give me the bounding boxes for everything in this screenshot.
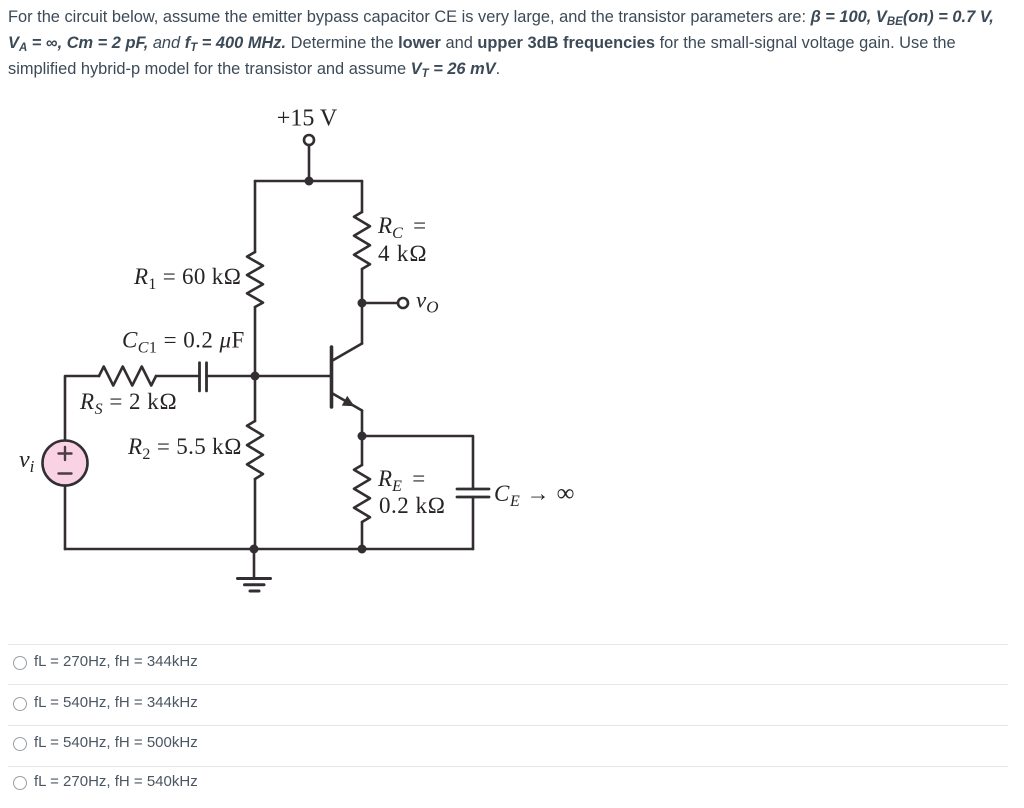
wire: top rail to RC top: [361, 181, 364, 212]
wire: top rail: [255, 180, 362, 183]
resistor RE = 0.2 kOhm: [354, 465, 370, 522]
answer option 1: [8, 644, 1008, 645]
wire: supply terminal to top rail: [308, 145, 311, 181]
wire: CE bottom to bottom rail: [472, 497, 475, 549]
capacitor CE bottom plate: [457, 496, 489, 499]
resistor RC = 4 kOhm: [354, 212, 370, 269]
transistor Q1 collector lead: [333, 344, 363, 361]
svg-text:CE → ∞: CE → ∞: [494, 480, 575, 510]
wire: collector node down to transistor: [361, 303, 364, 344]
ground symbol: [238, 579, 271, 592]
node: collector output junction: [358, 299, 367, 308]
svg-text:R1 = 60 kΩ: R1 = 60 kΩ: [133, 264, 241, 293]
wire: emitter to emitter node: [361, 411, 364, 437]
capacitor CC1 left plate: [198, 363, 201, 391]
node: emitter junction: [358, 432, 367, 441]
transistor Q1 base bar: [330, 347, 334, 407]
wire: base node down to R2: [254, 376, 257, 421]
wire: top rail to R1 top: [254, 181, 257, 252]
wire: emitter node to RE top: [361, 436, 364, 465]
capacitor CE top plate: [457, 488, 489, 491]
node: supply junction on top rail: [305, 177, 314, 186]
terminal: output circle: [398, 298, 408, 308]
wire: source top to RS left lead: [65, 376, 99, 440]
answer option 4: [8, 766, 1008, 767]
source minus sign: [59, 472, 72, 474]
wire: output stub: [362, 302, 398, 305]
wire: emitter rail to CE branch: [362, 436, 473, 489]
svg-text:RS = 2 kΩ: RS = 2 kΩ: [79, 389, 177, 418]
source vi circle: [43, 441, 88, 486]
svg-text:vO: vO: [416, 288, 439, 317]
svg-text:R2 = 5.5 kΩ: R2 = 5.5 kΩ: [127, 434, 242, 463]
source plus sign: [59, 447, 72, 460]
svg-text:+15 V: +15 V: [277, 106, 338, 132]
answer option 2: [8, 684, 1008, 685]
wire: ground stub: [253, 549, 256, 578]
wire: R2 bottom to bottom rail: [254, 479, 257, 549]
node: ground junction on bottom rail: [250, 545, 259, 554]
question text: [8, 4, 1018, 82]
wire: bottom rail: [65, 548, 473, 551]
node: base bias junction: [251, 372, 260, 381]
svg-text:RC =: RC =: [377, 213, 426, 242]
svg-text:vi: vi: [19, 447, 35, 476]
transistor Q1 emitter arrow: [342, 396, 355, 406]
svg-text:0.2 kΩ: 0.2 kΩ: [379, 493, 446, 518]
capacitor CC1 right plate: [205, 363, 208, 391]
+15 V supply terminal circle: [304, 135, 314, 145]
wire: RC bottom to collector node: [361, 269, 364, 303]
wire: CC1 to base node: [207, 375, 256, 378]
wire: R1 bottom to base node: [254, 307, 257, 376]
svg-text:RE =: RE =: [377, 466, 425, 495]
wire: RE bottom to bottom rail: [361, 522, 364, 549]
answer option 3: [8, 725, 1008, 726]
wire: RS right lead to CC1: [156, 375, 200, 378]
wire: base from node to transistor: [255, 375, 330, 378]
resistor RS = 2 kOhm: [99, 367, 156, 386]
wire: source bottom to bottom rail: [64, 486, 67, 550]
transistor Q1 emitter lead: [333, 394, 363, 411]
resistor R2 = 5.5 kOhm: [247, 421, 263, 479]
resistor R1 = 60 kOhm: [247, 252, 263, 307]
node: RE bottom junction: [358, 545, 367, 554]
svg-text:CC1 = 0.2 μF: CC1 = 0.2 μF: [122, 328, 245, 357]
svg-text:4 kΩ: 4 kΩ: [378, 241, 428, 266]
